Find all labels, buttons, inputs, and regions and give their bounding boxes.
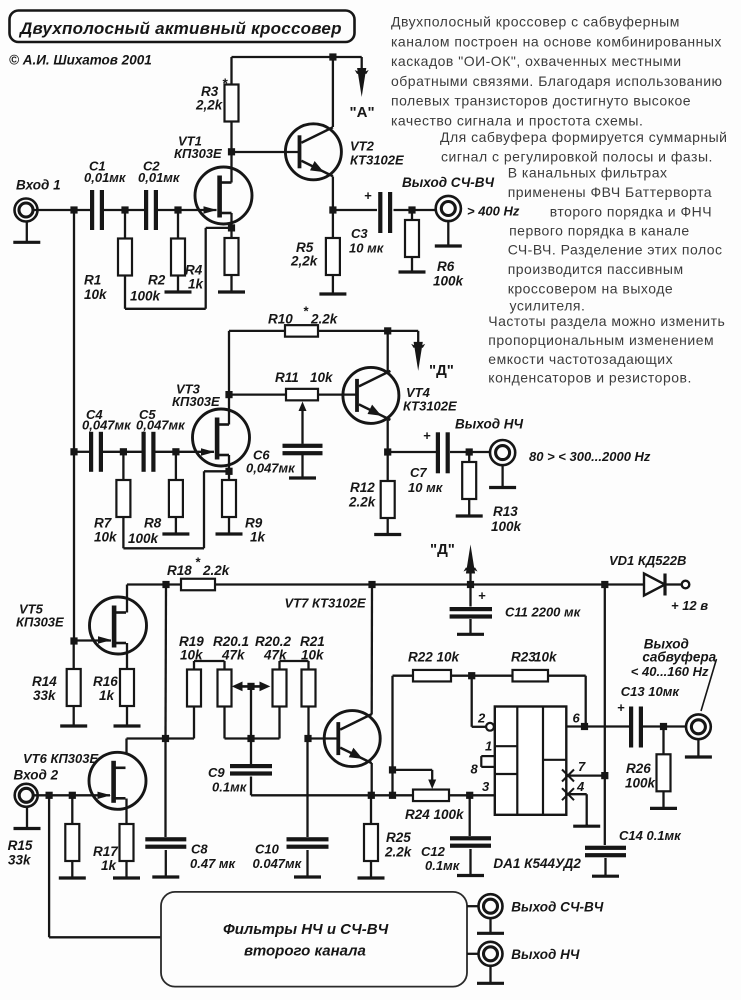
ground (R13) xyxy=(456,499,483,516)
wire R6 stub xyxy=(411,210,413,220)
svg-text:Вход 1: Вход 1 xyxy=(16,178,61,193)
wire R14 stub xyxy=(73,641,75,669)
wire VT1 drain xyxy=(230,152,232,183)
svg-text:кроссовером на выходе: кроссовером на выходе xyxy=(508,281,673,297)
svg-text:сигнал с регулировкой полосы и: сигнал с регулировкой полосы и фазы. xyxy=(441,149,713,165)
wire VT3 source xyxy=(228,455,230,471)
wire rail R18 to VD1 xyxy=(215,583,644,585)
dual-gang wiper arrow xyxy=(232,682,271,692)
wire C3 to output xyxy=(394,209,437,211)
svg-text:Фильтры НЧ и СЧ-ВЧ: Фильтры НЧ и СЧ-ВЧ xyxy=(223,921,389,938)
input connector X2 (Vhod 2) xyxy=(15,784,38,807)
output connector (box NCH) xyxy=(479,942,503,966)
svg-text:100k: 100k xyxy=(625,776,657,791)
node rail-R18 left junction xyxy=(162,581,169,588)
svg-text:+ 12 в: + 12 в xyxy=(671,598,708,613)
node wiper arrow middle xyxy=(247,683,254,690)
resistor R4 1k xyxy=(185,238,239,292)
svg-text:R6: R6 xyxy=(437,259,455,274)
svg-text:конденсаторов и резисторов.: конденсаторов и резисторов. xyxy=(488,370,692,386)
wire emitter to C7 xyxy=(388,451,436,453)
svg-text:С12: С12 xyxy=(421,844,446,859)
wire R10 left riser xyxy=(229,331,285,395)
resistor R16 1k xyxy=(93,669,134,706)
transistor VT4 KT3102E xyxy=(343,367,457,423)
terminal +12v xyxy=(671,581,708,613)
resistor R15 33k xyxy=(8,824,80,868)
svg-text:КП303Е: КП303Е xyxy=(172,394,220,409)
svg-text:8: 8 xyxy=(471,762,479,777)
svg-text:10k: 10k xyxy=(534,650,558,665)
ground (R26) xyxy=(650,791,677,808)
second-channel filter block xyxy=(161,892,467,987)
node pin6 junction xyxy=(581,723,588,730)
svg-text:R25: R25 xyxy=(386,830,411,845)
resistor R7 10k xyxy=(94,480,130,545)
svg-text:"Д": "Д" xyxy=(429,362,454,379)
node pin7 junction xyxy=(601,772,608,779)
wire box to SCH-VCH out xyxy=(467,905,479,907)
svg-text:С11 2200 мк: С11 2200 мк xyxy=(505,605,582,620)
wire drop to C8 xyxy=(164,739,166,838)
resistor R19 10k xyxy=(179,634,204,707)
svg-text:1k: 1k xyxy=(99,688,116,703)
capacitor C2 0,01mk xyxy=(138,159,181,231)
svg-text:10 мк: 10 мк xyxy=(408,480,444,495)
wire R13 stub xyxy=(468,452,470,462)
node pin3-C12 junction xyxy=(466,792,473,799)
resistor R14 33k xyxy=(32,669,81,706)
ground (pin4) xyxy=(573,824,600,826)
svg-text:С13 10мк: С13 10мк xyxy=(621,684,681,699)
capacitor C4 0,047mk xyxy=(82,407,132,472)
svg-text:Выход НЧ: Выход НЧ xyxy=(455,417,524,432)
ground (C11) xyxy=(457,619,484,634)
svg-text:Выход СЧ-ВЧ: Выход СЧ-ВЧ xyxy=(511,900,604,915)
wire box to NCH out xyxy=(467,953,479,955)
svg-text:С7: С7 xyxy=(410,465,427,480)
node VT5 gate junction xyxy=(70,637,77,644)
svg-text:R23: R23 xyxy=(511,650,536,665)
wire R2 stub xyxy=(177,210,179,239)
capacitor C3 10mk (polar) xyxy=(349,188,392,256)
svg-text:0,01мк: 0,01мк xyxy=(138,170,181,185)
svg-text:3: 3 xyxy=(482,779,490,794)
svg-text:6: 6 xyxy=(573,711,581,726)
wire R22 riser xyxy=(391,676,393,796)
capacitor C7 10mk (polar) xyxy=(408,428,450,495)
node input2-R15 junction xyxy=(69,792,76,799)
svg-text:© А.И. Шихатов 2001: © А.И. Шихатов 2001 xyxy=(9,53,152,68)
svg-text:VT2: VT2 xyxy=(350,139,375,154)
wire R18-left drop xyxy=(164,585,167,739)
wire VT7 emitter xyxy=(371,763,373,795)
svg-text:R11: R11 xyxy=(275,370,299,385)
input connector X1 (Vhod 1) xyxy=(15,199,38,222)
node wiper junction xyxy=(247,735,254,742)
wire R19-R20.1 top bridge xyxy=(194,661,225,670)
node C13-R26 junction xyxy=(660,723,667,730)
resistor R25 2.2k xyxy=(364,824,413,861)
svg-text:0,01мк: 0,01мк xyxy=(84,170,127,185)
node stage2 tap xyxy=(70,448,77,455)
resistor R13 100k xyxy=(462,462,522,534)
wire R1 feedback to VT1 source xyxy=(125,228,232,309)
resistor R21 10k xyxy=(300,634,325,707)
wire VD1 to +12 terminal xyxy=(666,583,682,585)
wire supply rail xyxy=(127,583,181,585)
resistor R11 10k xyxy=(275,370,334,400)
wire C1 to C2 xyxy=(104,209,144,211)
output connector (box SCH-VCH) xyxy=(479,894,503,918)
transistor VT7 KT3102E xyxy=(324,711,380,767)
node input1 junction xyxy=(70,206,77,213)
svg-text:R2: R2 xyxy=(148,273,166,288)
capacitor C6 0,047mk xyxy=(246,444,323,476)
wire pot bus segment 2 xyxy=(225,737,280,739)
svg-text:R1: R1 xyxy=(84,273,101,288)
transistor VT5 KP303E xyxy=(16,597,147,654)
resistor R10 2.2k xyxy=(268,304,339,337)
wire R5 stub xyxy=(332,210,334,238)
svg-text:4: 4 xyxy=(576,779,585,794)
ground (R2) xyxy=(165,276,192,293)
wire R8 stub xyxy=(175,452,177,480)
wire VT3 drain xyxy=(228,395,230,425)
svg-text:полевых транзисторов достигнут: полевых транзисторов достигнуто высокое xyxy=(391,93,691,109)
wire to R24 wiper xyxy=(393,769,433,771)
wire branch to filter box xyxy=(49,795,161,937)
node rail-VT2 collector junction xyxy=(329,53,336,60)
ground (R5) xyxy=(319,275,346,294)
ground (input 1) xyxy=(13,222,40,243)
svg-text:+: + xyxy=(364,188,372,203)
svg-text:33k: 33k xyxy=(8,853,32,868)
svg-text:каналом построен на основе ком: каналом построен на основе комбинированн… xyxy=(391,33,722,49)
svg-text:0.47 мк: 0.47 мк xyxy=(190,856,237,871)
wire R7 stub xyxy=(122,452,124,480)
node C3-R6 junction xyxy=(408,206,415,213)
capacitor C12 0.1mk xyxy=(421,836,491,873)
svg-text:усилителя.: усилителя. xyxy=(510,298,586,314)
svg-text:R9: R9 xyxy=(245,516,263,531)
node VT1 source junction xyxy=(228,224,235,231)
svg-text:100k: 100k xyxy=(130,289,162,304)
ground (R16) xyxy=(114,706,141,726)
svg-text:КП303Е: КП303Е xyxy=(174,146,222,161)
svg-text:100k: 100k xyxy=(491,519,523,534)
wire input1 to C1 xyxy=(34,209,90,211)
svg-text:R13: R13 xyxy=(493,504,518,519)
wire C7 to output xyxy=(450,451,491,453)
svg-text:+: + xyxy=(423,428,431,443)
wire VT1 source xyxy=(230,213,232,228)
wire R23 to pin6 xyxy=(548,676,586,727)
svg-text:R12: R12 xyxy=(350,480,375,495)
svg-text:2,2k: 2,2k xyxy=(195,98,224,113)
svg-text:В канальных фильтрах: В канальных фильтрах xyxy=(508,165,668,181)
ground (R9) xyxy=(216,517,243,534)
transistor VT6 KP303E xyxy=(89,752,146,809)
svg-text:С14 0.1мк: С14 0.1мк xyxy=(619,828,682,843)
svg-text:КТ3102Е: КТ3102Е xyxy=(350,153,404,168)
ground (R12) xyxy=(374,518,401,535)
wire VT5 drain to rail xyxy=(126,585,128,613)
ground (R17) xyxy=(113,861,140,878)
svg-text:2,2k: 2,2k xyxy=(290,254,319,269)
wire VT7 collector xyxy=(371,585,374,715)
ground (C10) xyxy=(294,850,321,877)
resistor R20.1 47k xyxy=(213,634,249,707)
transistor VT3 KP303E xyxy=(172,382,250,467)
wire pot bus segment 1 xyxy=(166,737,195,739)
wire emitter to C3 xyxy=(333,209,377,211)
svg-text:0.1мк: 0.1мк xyxy=(425,858,461,873)
pointer line to sub connector xyxy=(701,659,717,711)
ground (R4) xyxy=(218,275,245,292)
wire R12 stub xyxy=(387,452,389,481)
capacitor C11 2200mk (polar) xyxy=(450,588,582,620)
description paragraph 2 xyxy=(488,165,725,386)
node C2-R2 junction xyxy=(174,206,181,213)
transistor VT2 KT3102E xyxy=(285,124,404,180)
ground (SCH-VCH connector) xyxy=(435,221,462,246)
svg-text:47k: 47k xyxy=(221,648,246,663)
svg-text:второго порядка и ФНЧ: второго порядка и ФНЧ xyxy=(550,204,712,220)
output connector (NCH) xyxy=(490,440,515,465)
capacitor C10 0.047mk xyxy=(253,837,329,871)
ground (box NCH connector) xyxy=(477,966,504,983)
capacitor C13 10mk (polar) xyxy=(617,684,680,748)
ground (C12) xyxy=(457,849,484,876)
pin4 cross mark xyxy=(562,788,574,800)
svg-text:33k: 33k xyxy=(33,688,57,703)
resistor R22 10k xyxy=(408,650,461,682)
ground (sub connector) xyxy=(685,739,712,757)
wire R15 stub xyxy=(71,795,73,824)
diode VD1 KD522V xyxy=(609,553,686,596)
wire R24 to pin3 xyxy=(449,794,495,796)
svg-text:R22 10k: R22 10k xyxy=(408,650,461,665)
svg-text:100k: 100k xyxy=(128,531,160,546)
wire input2 to VT6 gate xyxy=(34,794,110,796)
resistor R8 100k xyxy=(128,480,183,546)
svg-text:R8: R8 xyxy=(144,516,162,531)
wire input bus down xyxy=(73,210,75,641)
svg-text:2: 2 xyxy=(477,711,486,726)
svg-text:1k: 1k xyxy=(101,858,118,873)
wire pin4 to ground xyxy=(566,794,586,826)
resistor R2 100k xyxy=(130,239,185,304)
wire R20.1 bottom stub xyxy=(223,707,225,739)
wire R7 feedback to VT3 source xyxy=(123,471,229,548)
wire VT2 collector xyxy=(332,57,334,127)
node R10-VT4 collector junction xyxy=(384,327,391,334)
svg-text:R15: R15 xyxy=(8,838,33,853)
resistor R23 10k xyxy=(511,650,558,682)
node wiper feed junction xyxy=(389,766,396,773)
svg-text:R17: R17 xyxy=(93,844,119,859)
svg-text:КП303Е: КП303Е xyxy=(16,615,64,630)
svg-text:1k: 1k xyxy=(188,277,205,292)
svg-text:VD1 КД522В: VD1 КД522В xyxy=(609,553,686,568)
node C1-C2 junction xyxy=(121,206,128,213)
wire C5 to VT3 gate xyxy=(156,451,215,453)
transistor VT1 KP303E xyxy=(174,134,252,225)
ground (C8) xyxy=(152,850,179,877)
svg-text:R24 100k: R24 100k xyxy=(405,807,465,822)
resistor R5 2,2k xyxy=(290,238,340,275)
svg-text:0.047мк: 0.047мк xyxy=(253,856,303,871)
node "A" (stage1 supply) xyxy=(350,57,375,121)
wire R3 bottom stub xyxy=(230,122,232,152)
svg-text:R4: R4 xyxy=(185,263,203,278)
capacitor C9 0.1mk xyxy=(208,764,272,795)
wire R26 stub xyxy=(662,727,664,755)
ground (R6) xyxy=(399,257,426,272)
svg-text:производится пассивным: производится пассивным xyxy=(508,261,684,277)
capacitor C1 0,01mk xyxy=(84,159,127,231)
trimmer arrow (R11 wiper from C6) xyxy=(299,402,307,444)
resistor R18 2.2k xyxy=(167,555,231,591)
wire pin2 drop xyxy=(472,676,487,727)
node C5-R8 junction xyxy=(172,448,179,455)
node VT2 emitter junction xyxy=(329,206,336,213)
wire VT5 source xyxy=(126,643,128,669)
wire C9 bottom to emitter bus xyxy=(251,777,413,796)
resistor R3 2,2k xyxy=(195,76,239,122)
wire R20.2 bottom stub xyxy=(278,707,280,739)
svg-text:СЧ-ВЧ. Разделение этих полос: СЧ-ВЧ. Разделение этих полос xyxy=(508,242,723,258)
svg-text:второго канала: второго канала xyxy=(244,943,366,960)
wire supply drop to op-amp pin7 xyxy=(604,585,606,846)
svg-text:10k: 10k xyxy=(310,370,334,385)
title box xyxy=(10,11,355,43)
svg-text:VT6 КП303Е: VT6 КП303Е xyxy=(23,751,98,766)
node VT7 emitter junction xyxy=(368,792,375,799)
wire R21 bottom / VT7 base / C10 xyxy=(308,707,339,838)
resistor R20.2 47k xyxy=(255,634,292,707)
svg-text:R26: R26 xyxy=(626,761,651,776)
resistor R9 1k xyxy=(222,480,267,545)
output connector (subwoofer) xyxy=(686,714,711,739)
resistor R24 100k xyxy=(405,790,465,822)
ground (C6) xyxy=(289,452,316,478)
wire R22 left xyxy=(393,675,414,677)
svg-text:первого порядка в канале: первого порядка в канале xyxy=(509,223,690,239)
svg-text:Выход СЧ-ВЧ: Выход СЧ-ВЧ xyxy=(402,175,495,190)
description paragraph 1 xyxy=(391,14,728,165)
node R24 left junction xyxy=(389,792,396,799)
wire VT4 collector xyxy=(387,331,389,371)
svg-text:VT7 КТ3102Е: VT7 КТ3102Е xyxy=(285,596,366,611)
svg-text:2.2k: 2.2k xyxy=(202,563,231,578)
resistor R1 10k xyxy=(84,239,132,303)
svg-text:пропорциональным изменением: пропорциональным изменением xyxy=(488,332,714,348)
svg-text:10k: 10k xyxy=(94,530,118,545)
wire R3 top to supply rail xyxy=(232,57,362,85)
svg-text:1: 1 xyxy=(485,739,492,754)
output connector (SCH-VCH) xyxy=(436,196,461,221)
node R22-R23 junction xyxy=(468,672,475,679)
ground (C14) xyxy=(592,858,619,876)
svg-text:*: * xyxy=(222,76,228,91)
wire R11 to VT4 base xyxy=(318,393,357,395)
svg-text:R18: R18 xyxy=(167,563,192,578)
node rail-C11 junction xyxy=(467,581,474,588)
wire C13 to sub connector xyxy=(643,725,686,727)
resistor R17 1k xyxy=(93,824,134,873)
svg-text:Частоты раздела можно изменить: Частоты раздела можно изменить xyxy=(488,313,725,329)
wire C11 stub xyxy=(469,585,471,607)
ground (R8) xyxy=(162,517,189,534)
svg-text:R14: R14 xyxy=(32,674,57,689)
ground (NCH connector) xyxy=(489,465,516,487)
resistor R12 2.2k xyxy=(348,480,395,518)
svg-text:С8: С8 xyxy=(191,842,208,857)
svg-text:Двухполосный кроссовер с сабву: Двухполосный кроссовер с сабвуферным xyxy=(391,14,680,30)
node "D" arrow into rail xyxy=(430,541,478,585)
wire C2 to VT1 gate xyxy=(158,209,217,211)
wire tap to C4 xyxy=(74,451,89,453)
wire C12 stub xyxy=(469,795,471,836)
wire source to R4 xyxy=(230,228,232,238)
svg-text:0,047мк: 0,047мк xyxy=(82,418,132,433)
wire VT6 drain to pot bus xyxy=(127,739,166,754)
wire R19 bottom stub xyxy=(193,707,195,739)
wire R1 stub xyxy=(124,210,126,239)
node VT1 drain junction xyxy=(228,148,235,155)
svg-text:0.1мк: 0.1мк xyxy=(212,780,248,795)
svg-text:Выход НЧ: Выход НЧ xyxy=(511,947,580,962)
wire R25 stub xyxy=(370,795,372,824)
capacitor C14 0.1mk xyxy=(585,828,682,857)
resistor R6 100k xyxy=(405,220,465,289)
wire gate VT5 xyxy=(74,639,111,641)
ground (R15) xyxy=(59,861,86,878)
svg-text:Двухполосный активный кроссове: Двухполосный активный кроссовер xyxy=(18,19,342,38)
svg-text:"А": "А" xyxy=(350,104,375,121)
svg-text:R10: R10 xyxy=(268,312,293,327)
svg-text:Вход 2: Вход 2 xyxy=(14,768,59,783)
wire pin6 out xyxy=(566,725,629,727)
node VT3 drain junction xyxy=(225,391,232,398)
trimmer arrow (R24 wiper) xyxy=(428,770,436,789)
wire VT2 emitter xyxy=(332,177,334,211)
wire C4 to C5 xyxy=(103,451,142,453)
node pot bus left junction xyxy=(162,735,169,742)
wire pin7 to supply xyxy=(566,774,605,776)
ground (input 2) xyxy=(14,807,41,829)
svg-text:емкости частотозадающих: емкости частотозадающих xyxy=(488,351,673,367)
svg-text:7: 7 xyxy=(578,759,586,774)
svg-text:R16: R16 xyxy=(93,674,118,689)
svg-text:качество сигнала и простота сх: качество сигнала и простота схемы. xyxy=(391,113,643,129)
svg-text:> 400 Hz: > 400 Hz xyxy=(467,204,520,219)
svg-text:2.2k: 2.2k xyxy=(384,845,413,860)
ground (R25) xyxy=(358,861,385,878)
svg-text:применены ФВЧ Баттерворта: применены ФВЧ Баттерворта xyxy=(508,184,712,200)
node input2 branch junction xyxy=(46,792,53,799)
svg-text:+: + xyxy=(478,588,486,603)
wire R20.2-R21 top bridge xyxy=(280,661,309,670)
svg-text:+: + xyxy=(617,700,625,715)
svg-text:2.2k: 2.2k xyxy=(310,312,339,327)
svg-text:10k: 10k xyxy=(301,648,325,663)
svg-text:< 40...160 Hz: < 40...160 Hz xyxy=(631,664,709,679)
svg-text:100k: 100k xyxy=(433,274,465,289)
node C7-R13 junction xyxy=(466,448,473,455)
